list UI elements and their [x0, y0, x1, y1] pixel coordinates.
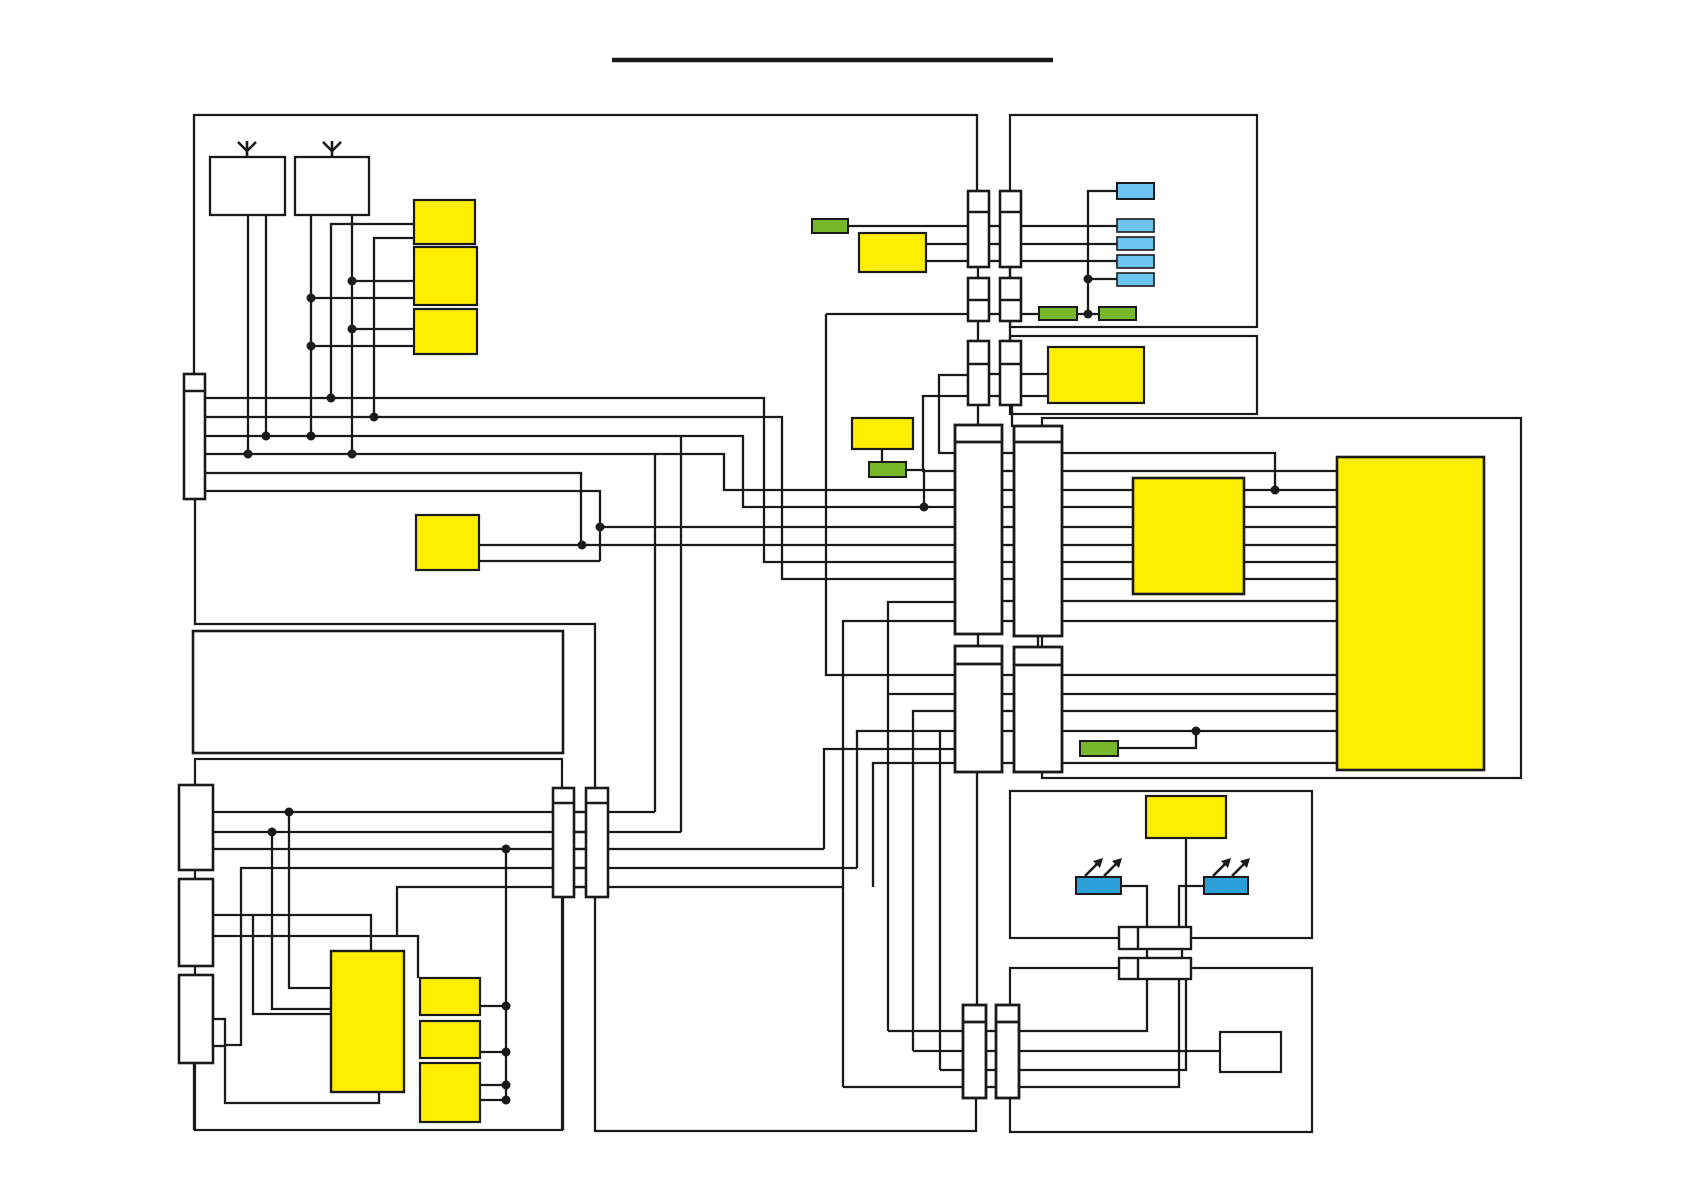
connector K3a: [968, 341, 989, 405]
bus stubs between E1a and E1b: [1002, 453, 1014, 621]
relay R2 (blue): [1117, 219, 1154, 232]
module M4 (large yellow, right): [1337, 457, 1484, 770]
bottom-left section box B2: [195, 759, 562, 1130]
junction dots mid-left: [578, 523, 605, 550]
wire F1 to F2: [1077, 313, 1099, 315]
wire SA pin3: [213, 848, 824, 850]
wire bus1: [205, 398, 955, 562]
module A1 (yellow): [414, 200, 475, 244]
module M1 (yellow, top-middle): [859, 233, 926, 272]
relay Y3 (yellow): [420, 1063, 480, 1122]
bus wire E1b pin1 with corner riser: [1062, 453, 1275, 490]
link wires K1-K2: [977, 267, 979, 278]
relay R3 (blue): [1117, 237, 1154, 250]
top-left section boundary: [194, 115, 977, 374]
relay Y1 (yellow): [420, 978, 480, 1015]
ECU connector E1a: [955, 425, 1002, 634]
wire SC bottom to B2 frame: [193, 1063, 195, 1130]
bottom-mid connector SR: [996, 1005, 1019, 1098]
harness riser x843 (E1a to bottom bus): [843, 621, 955, 1087]
wire R1/R5 common vertical: [1088, 191, 1117, 314]
wire branch x272 to big yellow: [272, 832, 331, 1009]
pass-through connector P2: [586, 788, 608, 897]
wire bus5: [205, 473, 581, 545]
title underline: [612, 58, 1053, 63]
connector strip SB: [179, 879, 213, 966]
wire SB pin1 to big yellow top: [213, 915, 371, 951]
link wire K3a to E1a (second): [923, 396, 968, 471]
left boundary continuation wire: [195, 499, 595, 788]
relay output wires to common node: [480, 1005, 506, 1007]
harness riser x913 (E2a to bottom bus): [913, 711, 955, 1051]
relay R5 (blue): [1117, 273, 1154, 286]
wire K2b to F1: [1021, 313, 1039, 315]
harness riser x873 (bus to E2a): [873, 763, 955, 887]
branch x888 to E2a: [888, 693, 955, 695]
wire branch x253 to big yellow: [253, 915, 331, 1014]
module M6 (yellow, above bus): [852, 418, 913, 449]
module A2 (yellow): [414, 247, 477, 305]
solar arrows S2: [1213, 858, 1250, 876]
fuse F4 (green, below M6): [869, 462, 906, 477]
pass-through stubs K1: [989, 225, 1000, 227]
fuse F2 (green): [1099, 307, 1136, 320]
wire bus3: [205, 436, 955, 507]
equipment box D2 (bottom-right lower): [1010, 968, 1312, 1132]
link wire K3a to E1a (left): [939, 375, 968, 453]
wire SA pin2: [213, 831, 681, 833]
module A1 wires: [331, 224, 414, 398]
wire S2 to J1: [1179, 886, 1204, 927]
relay R4 (blue): [1117, 255, 1154, 268]
common node vertical x506: [505, 849, 507, 1100]
link wires K2-K3: [977, 321, 979, 341]
connector K1b: [1000, 191, 1021, 267]
ECU L1 (big yellow bottom-left): [331, 951, 404, 1092]
connector K3b: [1000, 341, 1021, 405]
junction dots bottom-left: [268, 808, 511, 1105]
connector J2: [1119, 958, 1191, 979]
antenna2 pin wires: [310, 215, 312, 436]
wire bus2: [205, 417, 955, 579]
antenna1 pin wires: [247, 215, 249, 454]
harness riser x826 (K2a to E2a): [826, 314, 955, 675]
link wires K3 to E1 connectors: [977, 405, 979, 425]
connector strip SA: [179, 785, 213, 870]
module A3 (yellow): [414, 309, 477, 354]
junction dots top-middle: [1084, 275, 1093, 319]
sub-connector on SC: [213, 1019, 225, 1046]
riser x655 (bus4 to SA pin1): [654, 454, 656, 812]
connector K2b: [1000, 278, 1021, 321]
link wires J1-J2: [1146, 949, 1148, 958]
module A2 wires: [352, 280, 414, 282]
harness riser x824 (SA pin3 to E2a): [824, 749, 955, 849]
wire M5 to J1: [1185, 838, 1187, 927]
riser x681 (bus3 to SA pin2): [680, 436, 682, 832]
module M2 (yellow in C2): [1048, 347, 1144, 403]
connector K2a: [968, 278, 989, 321]
equipment box C1 (top-right): [1010, 115, 1257, 327]
wire S1 to J1: [1121, 886, 1147, 927]
sensor G1 (green): [812, 219, 848, 233]
connector J1: [1119, 927, 1191, 949]
wire SB pin2 with riser to x843: [213, 936, 418, 978]
wire F3 riser to bus: [1118, 731, 1196, 748]
bottom bus wire y1087: [843, 979, 1179, 1087]
junction dot corner riser: [1271, 486, 1280, 495]
bus wire E1b pin2: [1062, 470, 1337, 472]
bottom bus wire y1051: [913, 1050, 1220, 1052]
module M5 (yellow, bottom-right): [1146, 796, 1226, 838]
ECU connector E1b: [1014, 426, 1062, 636]
bus wires E1b to M3: [1062, 489, 1133, 491]
link wire E2a to SL: [976, 772, 978, 1005]
wire G1 to K1a: [848, 225, 968, 227]
module M3 (yellow, mid-right): [1133, 478, 1244, 594]
relay R1 (blue): [1117, 183, 1154, 199]
solar sensor S2 (blue): [1204, 877, 1248, 894]
ECU connector E2b: [1014, 647, 1062, 772]
ECU connector E2a: [955, 646, 1002, 772]
harness riser x857 (bus to E2a): [857, 731, 955, 868]
fuse F1 (green): [1039, 307, 1077, 320]
wire net via x241 (sub-connector to bus): [225, 868, 857, 1045]
M455 wires: [479, 544, 955, 546]
junction dot F4 tap: [920, 503, 929, 512]
wire branch x289 to big yellow: [289, 812, 331, 988]
wire K2a to riser x826: [826, 313, 968, 315]
bus wires E2b to M4: [1062, 674, 1337, 676]
pass-through stubs K3: [989, 373, 1000, 375]
relay Y2 (yellow): [420, 1021, 480, 1058]
wires K3b to M2: [1021, 373, 1048, 375]
wire F4 to bus3: [906, 470, 924, 507]
harness riser x940 (bus junction to bottom): [939, 731, 941, 1070]
solar sensor S1 (blue): [1076, 877, 1121, 894]
harness riser x888 (E1a to bottom bus): [888, 602, 955, 1031]
wires K1b to relays: [1021, 225, 1117, 227]
antenna unit 1 box: [210, 157, 285, 215]
bus wires M3 to M4: [1244, 489, 1337, 491]
empty equipment box B1: [193, 631, 563, 753]
connector strip SC: [179, 975, 213, 1063]
antenna unit 2 box: [295, 157, 369, 215]
wire P2 bottom to bottom-mid connector: [595, 897, 976, 1131]
equipment box C3 (right, large): [1042, 418, 1521, 778]
receiver box D3 (white): [1220, 1032, 1281, 1072]
antenna symbol 1: [238, 141, 256, 157]
wire P1 bottom loop: [562, 897, 564, 1130]
junction dots top-left: [244, 277, 379, 459]
equipment box D1 (bottom-right upper): [1010, 791, 1312, 938]
bottom bus wire y1031: [888, 979, 1147, 1031]
bus stubs between E2a and E2b: [1002, 675, 1014, 763]
connector CA (left harness connector): [184, 374, 205, 499]
wire bus6: [205, 491, 600, 561]
bottom bus wire y1070: [940, 979, 1186, 1070]
junction dot F3: [1192, 727, 1201, 736]
antenna symbol 2: [323, 141, 341, 157]
wires M1 to K1a: [926, 243, 968, 245]
link wires E1-E2: [977, 634, 979, 646]
gap stubs P1-P2: [574, 812, 586, 887]
fuse F3 (green): [1080, 741, 1118, 756]
pass-through connector P1: [553, 788, 574, 897]
connector K1a: [968, 191, 989, 267]
bottom-mid connector SL: [963, 1005, 986, 1098]
wire M6 to F4: [881, 449, 883, 462]
module A3 wires: [352, 328, 414, 330]
equipment box C2 (right, second): [1010, 336, 1257, 414]
wire bus4: [205, 454, 955, 490]
wire sub-connector to big yellow bottom: [225, 1045, 379, 1103]
wire SA pin1: [213, 811, 655, 813]
solar arrows S1: [1085, 858, 1122, 876]
module M455 (yellow, mid-left): [416, 515, 479, 570]
bus wires E1b to M4 (below M3): [1062, 600, 1337, 602]
